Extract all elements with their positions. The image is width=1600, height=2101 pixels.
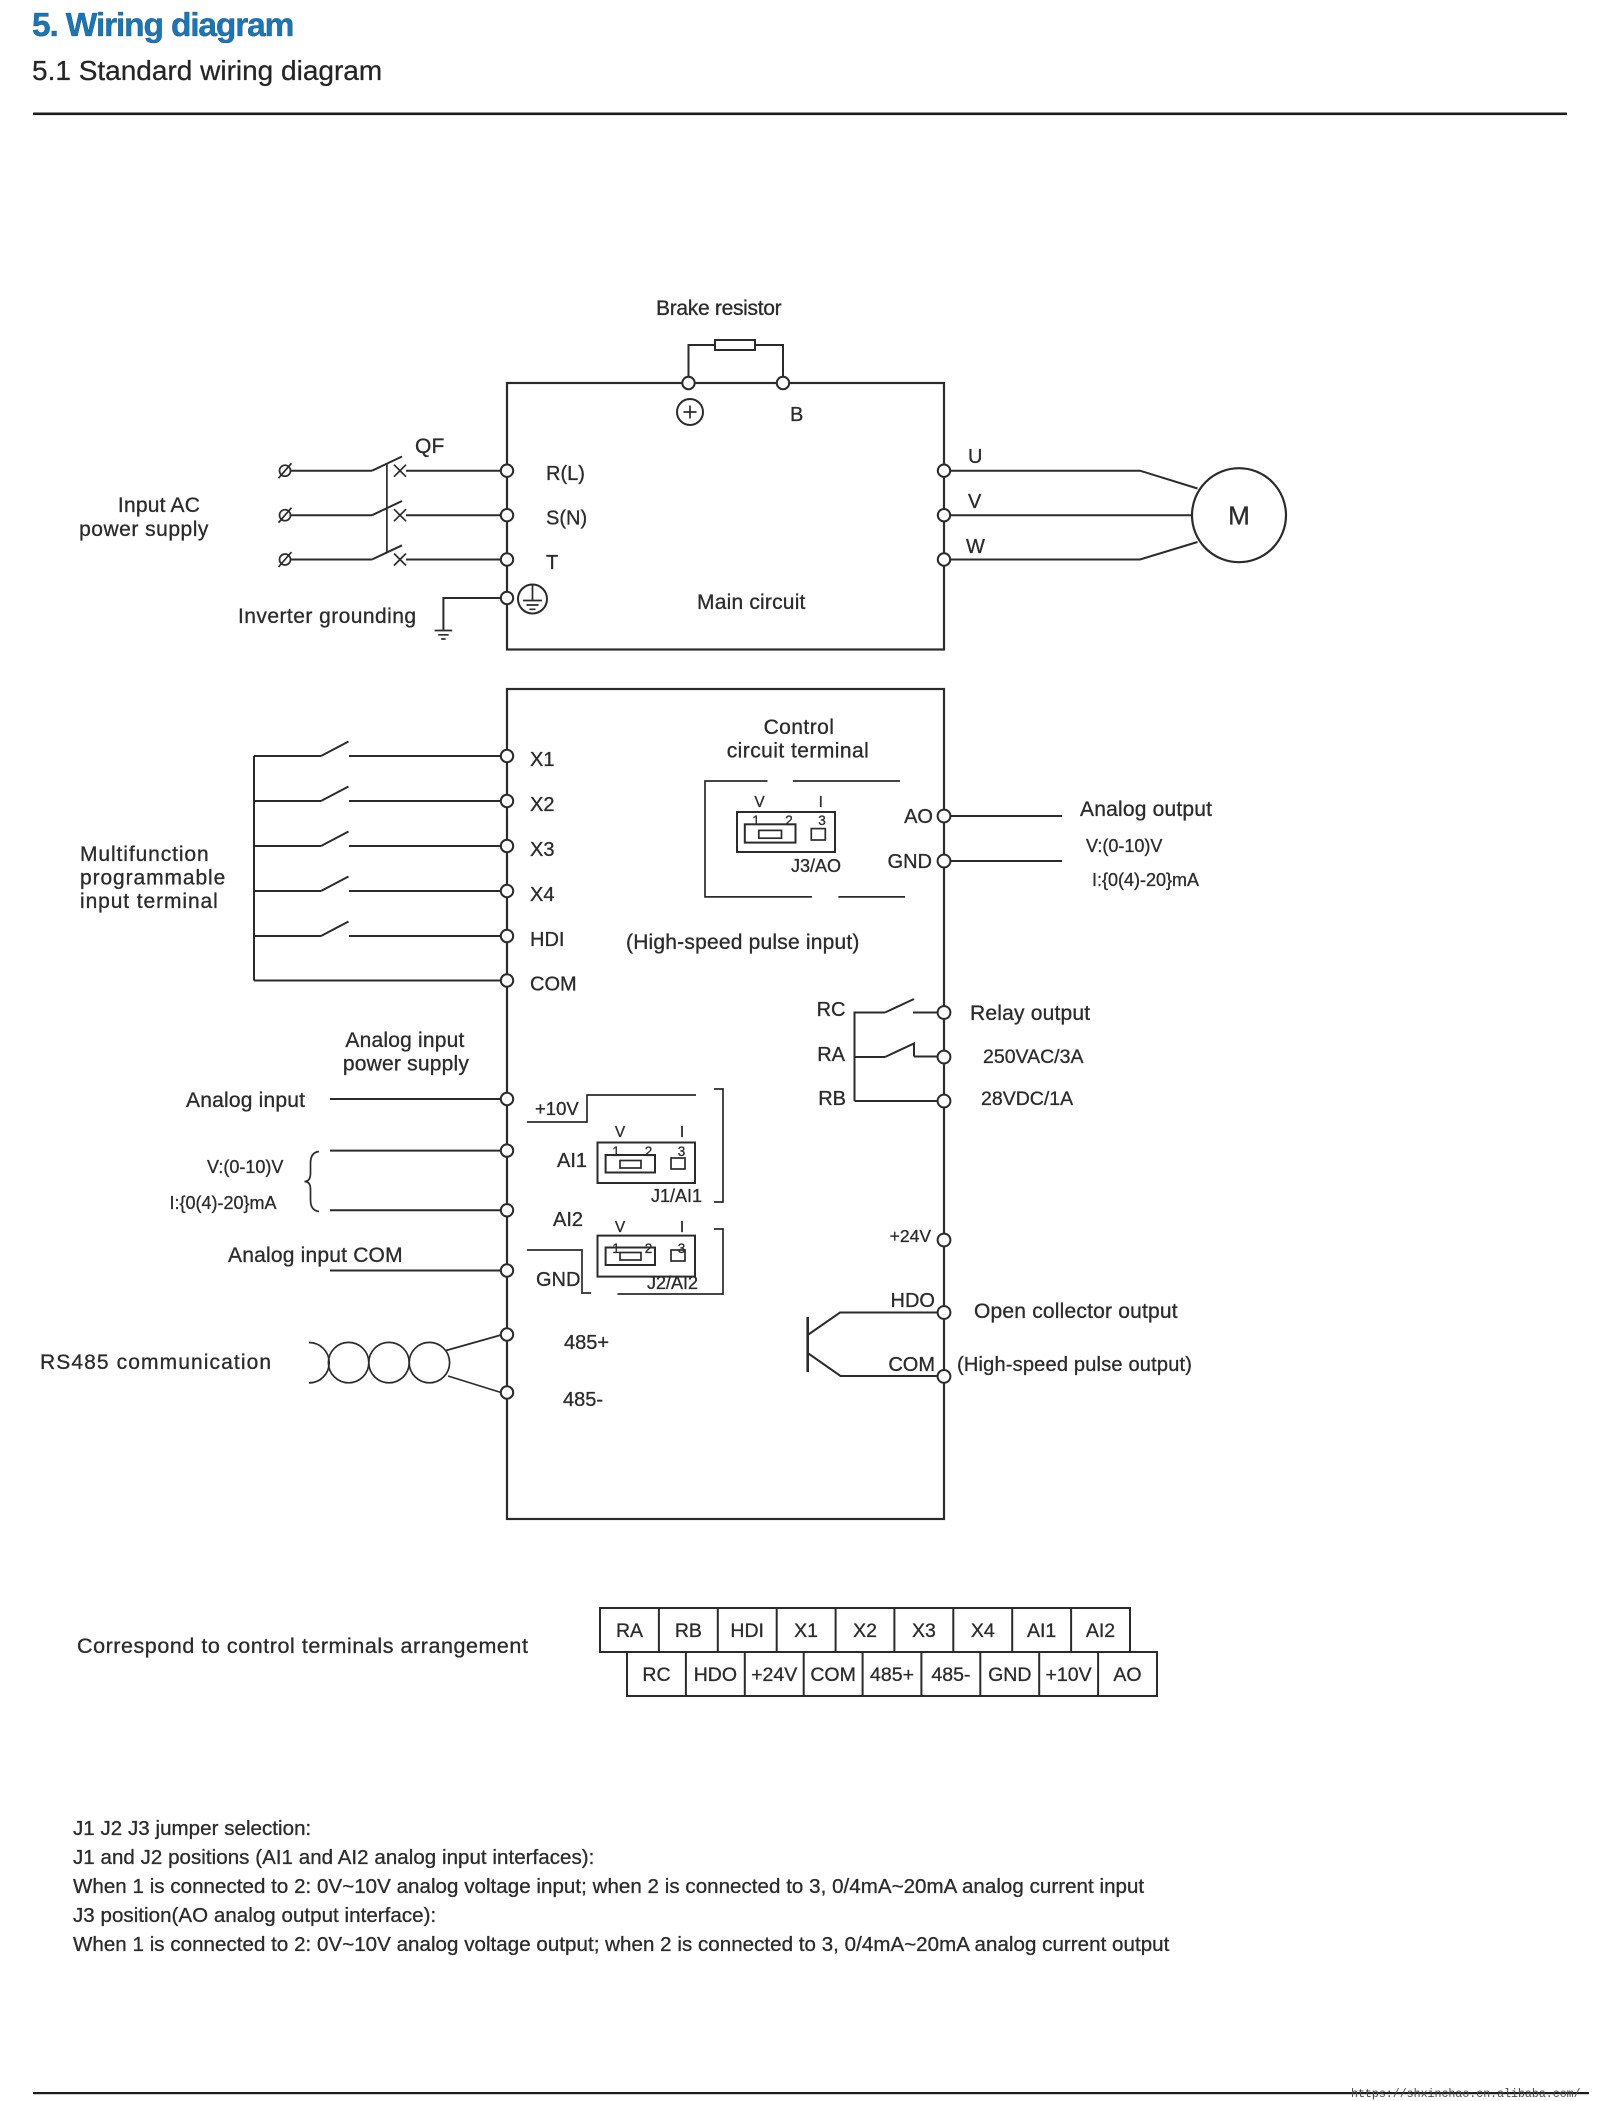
svg-text:485-: 485- [931, 1664, 970, 1686]
svg-text:X2: X2 [853, 1620, 877, 1642]
svg-text:https://shxinchao.cn.alibaba.c: https://shxinchao.cn.alibaba.com/ [1351, 2088, 1581, 2101]
svg-text:J1 J2 J3 jumper selection:: J1 J2 J3 jumper selection: [73, 1817, 311, 1840]
relay bus wire [854, 1013, 856, 1102]
terminal (+) brake left on box edge [682, 377, 694, 389]
svg-text:485+: 485+ [564, 1332, 609, 1354]
svg-text:V:(0-10)V: V:(0-10)V [207, 1157, 283, 1177]
terminal GND analog [501, 1264, 513, 1276]
svg-text:X4: X4 [971, 1620, 995, 1642]
wire 485+ lead [446, 1335, 501, 1351]
svg-text:V: V [754, 794, 765, 811]
svg-text:X1: X1 [794, 1620, 818, 1642]
svg-text:1: 1 [752, 813, 760, 828]
terminal X1 [501, 750, 513, 762]
svg-text:HDO: HDO [891, 1290, 935, 1312]
svg-text:GND: GND [988, 1664, 1031, 1686]
jumper selection note text [73, 1817, 1170, 1956]
svg-text:AI1: AI1 [1027, 1620, 1056, 1642]
svg-text:circuit terminal: circuit terminal [727, 740, 870, 763]
svg-text:J2/AI2: J2/AI2 [647, 1273, 698, 1293]
brake resistor R [715, 340, 755, 350]
svg-text:RA: RA [817, 1044, 845, 1066]
svg-text:Correspond to control terminal: Correspond to control terminals arrangem… [77, 1634, 528, 1658]
terminal RB [938, 1095, 951, 1108]
svg-text:3: 3 [678, 1144, 686, 1159]
svg-text:+24V: +24V [751, 1664, 797, 1686]
svg-text:T: T [546, 552, 558, 574]
terminal X4 [501, 885, 513, 897]
terminal AI1 [501, 1144, 513, 1156]
svg-text:+10V: +10V [535, 1098, 579, 1119]
svg-text:+10V: +10V [1046, 1664, 1092, 1686]
terminal 485+ [501, 1328, 513, 1340]
wire brake left lead [689, 345, 716, 383]
svg-text:Input AC: Input AC [118, 494, 200, 517]
terminal V [938, 509, 950, 521]
multifunction input bus wire [253, 756, 255, 981]
svg-text:Analog output: Analog output [1080, 798, 1212, 821]
switch X4 [254, 877, 507, 892]
svg-text:I:{0(4)-20}mA: I:{0(4)-20}mA [1092, 870, 1199, 890]
svg-text:J1 and J2 positions (AI1 and A: J1 and J2 positions (AI1 and AI2 analog … [73, 1846, 594, 1869]
svg-text:AI2: AI2 [1086, 1620, 1115, 1642]
motor M [1192, 468, 1286, 562]
switch X3 [254, 832, 507, 847]
wire AO output [951, 815, 1063, 817]
svg-text:2: 2 [645, 1144, 653, 1159]
terminal GND analog output [938, 855, 951, 868]
wire analog input to +10V [330, 1098, 507, 1100]
svg-text:V:(0-10)V: V:(0-10)V [1086, 836, 1162, 856]
svg-text:J3 position(AO analog output i: J3 position(AO analog output interface): [73, 1904, 436, 1927]
terminal COM [501, 974, 513, 986]
top horizontal rule [33, 113, 1567, 116]
wire ground lead [443, 598, 501, 630]
svg-text:programmable: programmable [80, 867, 226, 890]
terminal HDI [501, 930, 513, 942]
plus polarity symbol [677, 399, 703, 425]
svg-text:I: I [680, 1124, 684, 1141]
svg-text:485+: 485+ [870, 1664, 914, 1686]
svg-text:Multifunction: Multifunction [80, 843, 210, 866]
switch HDI [254, 922, 507, 937]
svg-text:Main circuit: Main circuit [697, 591, 806, 614]
svg-text:+24V: +24V [890, 1226, 932, 1246]
phase input T [279, 545, 508, 567]
svg-text:W: W [966, 536, 985, 558]
svg-text:Analog input COM: Analog input COM [228, 1244, 403, 1267]
terminal ground on box edge [501, 592, 513, 604]
svg-text:(High-speed pulse output): (High-speed pulse output) [957, 1354, 1192, 1376]
wire analog GND [330, 1270, 507, 1272]
svg-text:COM: COM [888, 1354, 935, 1376]
terminal S(N) [501, 509, 513, 521]
svg-text:COM: COM [530, 974, 577, 996]
svg-text:RC: RC [817, 999, 846, 1021]
svg-text:AI1: AI1 [557, 1150, 587, 1172]
svg-text:AI2: AI2 [553, 1209, 583, 1231]
svg-text:RS485 communication: RS485 communication [40, 1351, 272, 1374]
svg-text:X1: X1 [530, 749, 554, 771]
svg-text:V: V [615, 1124, 626, 1141]
svg-text:28VDC/1A: 28VDC/1A [981, 1088, 1073, 1110]
main circuit box [507, 383, 944, 650]
RS485 twisted pair symbol [309, 1342, 450, 1383]
svg-text:5.1 Standard wiring diagram: 5.1 Standard wiring diagram [32, 55, 382, 86]
wire 485- lead [448, 1376, 501, 1393]
svg-text:J3/AO: J3/AO [791, 856, 841, 876]
svg-text:RA: RA [616, 1620, 643, 1642]
wire COM [254, 980, 507, 982]
wire RB [855, 1100, 938, 1102]
terminal AO [938, 810, 951, 823]
switch X1 [254, 742, 507, 757]
svg-text:V: V [615, 1219, 626, 1236]
svg-text:I:{0(4)-20}mA: I:{0(4)-20}mA [170, 1193, 277, 1213]
svg-text:X2: X2 [530, 794, 554, 816]
callout line GND to J2 block [527, 1250, 591, 1293]
breaker QF tie bar [386, 464, 388, 553]
terminal RC [938, 1006, 951, 1019]
terminal X2 [501, 795, 513, 807]
svg-text:X3: X3 [530, 839, 554, 861]
svg-text:QF: QF [415, 435, 445, 458]
svg-text:AO: AO [1113, 1664, 1141, 1686]
svg-text:Control: Control [764, 716, 835, 739]
terminal RA [938, 1051, 951, 1064]
svg-text:GND: GND [536, 1269, 580, 1291]
terminal +10V [501, 1093, 513, 1105]
terminal T [501, 553, 513, 565]
protective earth symbol [518, 585, 547, 614]
brace for analog input pair [305, 1152, 320, 1212]
svg-text:HDI: HDI [530, 929, 564, 951]
phase input S [279, 501, 508, 523]
svg-text:Brake resistor: Brake resistor [656, 297, 782, 320]
svg-text:RC: RC [642, 1664, 670, 1686]
wire U to motor [950, 471, 1198, 489]
bracket right of J2 block [618, 1229, 724, 1294]
svg-text:3: 3 [818, 813, 826, 828]
switch X2 [254, 787, 507, 802]
bottom horizontal rule [33, 2092, 1589, 2094]
svg-text:R(L): R(L) [546, 463, 585, 485]
relay contact RA [855, 1044, 938, 1058]
svg-text:RB: RB [818, 1088, 846, 1110]
phase input R: source symbol, wire, breaker blade, x mark, wire, terminal [279, 457, 508, 479]
svg-text:B: B [790, 404, 803, 426]
svg-text:250VAC/3A: 250VAC/3A [983, 1046, 1083, 1068]
svg-text:(High-speed pulse input): (High-speed pulse input) [626, 931, 860, 954]
svg-text:HDO: HDO [694, 1664, 737, 1686]
callout line +10V to J1 block [527, 1095, 696, 1122]
terminal W [938, 553, 950, 565]
bracket right of J1 block [714, 1089, 723, 1202]
jumper J2/AI2 [598, 1219, 696, 1277]
wire AI2 [330, 1209, 507, 1211]
terminal HDO [938, 1306, 951, 1319]
wire V to motor [950, 514, 1192, 516]
svg-text:AO: AO [904, 806, 933, 828]
jumper J1/AI1 [598, 1124, 696, 1183]
relay contact RC [854, 999, 938, 1013]
svg-text:1: 1 [612, 1144, 620, 1159]
svg-text:2: 2 [785, 813, 793, 828]
open collector transistor [808, 1313, 938, 1377]
wire AI1 [330, 1150, 507, 1152]
svg-text:3: 3 [678, 1241, 686, 1256]
svg-text:When 1 is connected to 2: 0V~1: When 1 is connected to 2: 0V~10V analog … [73, 1933, 1170, 1956]
terminal R(L) [501, 465, 513, 477]
control circuit box [507, 689, 944, 1519]
svg-text:X3: X3 [912, 1620, 936, 1642]
svg-text:When 1 is connected to 2: 0V~1: When 1 is connected to 2: 0V~10V analog … [73, 1875, 1144, 1898]
bracket around J3/AO jumper [705, 781, 905, 897]
terminal COM output [938, 1370, 951, 1383]
terminal AI2 [501, 1204, 513, 1216]
terminal +24V [938, 1234, 951, 1247]
svg-text:Analog input: Analog input [186, 1089, 305, 1112]
terminal X3 [501, 840, 513, 852]
svg-text:Inverter grounding: Inverter grounding [238, 605, 417, 628]
svg-text:M: M [1228, 501, 1250, 531]
svg-text:GND: GND [888, 851, 932, 873]
svg-text:U: U [968, 446, 982, 468]
svg-text:S(N): S(N) [546, 508, 587, 530]
svg-text:J1/AI1: J1/AI1 [651, 1186, 702, 1206]
terminal strip row 1 [600, 1608, 1130, 1652]
svg-text:power supply: power supply [343, 1053, 469, 1076]
svg-text:I: I [819, 794, 823, 811]
svg-text:Relay output: Relay output [970, 1002, 1090, 1025]
terminal B brake right on box edge [777, 377, 789, 389]
svg-text:X4: X4 [530, 884, 554, 906]
terminal 485- [501, 1386, 513, 1398]
svg-text:5. Wiring diagram: 5. Wiring diagram [32, 7, 293, 44]
terminal strip row 2 [627, 1652, 1157, 1696]
svg-text:HDI: HDI [730, 1620, 764, 1642]
earth ground symbol [435, 631, 453, 640]
svg-text:RB: RB [675, 1620, 702, 1642]
wire GND output [951, 860, 1063, 862]
terminal U [938, 465, 950, 477]
svg-text:V: V [968, 491, 982, 513]
svg-text:Open collector output: Open collector output [974, 1300, 1178, 1323]
svg-text:power supply: power supply [79, 518, 209, 541]
jumper J3/AO [737, 794, 835, 852]
wire brake right lead [755, 345, 783, 383]
svg-text:Analog input: Analog input [345, 1029, 464, 1052]
wire W to motor [950, 542, 1198, 560]
svg-text:input terminal: input terminal [80, 890, 219, 913]
svg-text:COM: COM [810, 1664, 856, 1686]
svg-text:485-: 485- [563, 1389, 603, 1411]
svg-text:I: I [680, 1219, 684, 1236]
